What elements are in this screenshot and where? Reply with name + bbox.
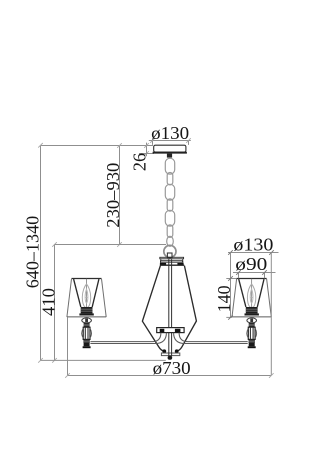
glass clamp dot right (175, 349, 179, 353)
hanging ring (164, 245, 176, 257)
left socket (81, 307, 93, 313)
right shade inner cone left (239, 279, 246, 307)
left lower collar (83, 339, 89, 342)
right collar gap (249, 340, 255, 342)
svg-text:230–930: 230–930 (103, 163, 123, 228)
glass clamp dot left (162, 349, 166, 353)
body clamp block right (177, 263, 183, 265)
left candle base cap (83, 346, 91, 348)
dimension line 230-930 (vertical) (119, 146, 121, 245)
right bulb flame (250, 289, 253, 303)
bottom plate (161, 353, 179, 356)
svg-text:410: 410 (38, 288, 58, 316)
right shade flare left (232, 279, 237, 317)
svg-text:ø130: ø130 (151, 123, 189, 143)
left shade bottom edge (67, 316, 106, 318)
right bead center (250, 319, 253, 323)
extension line: bottom reference (41, 359, 166, 361)
left socket stripes (81, 309, 93, 311)
svg-text:ø130: ø130 (233, 235, 273, 255)
right candle base cap (248, 346, 256, 348)
left lamp centerline (86, 279, 88, 307)
extension d90 left (238, 273, 240, 279)
body top edge (160, 264, 184, 266)
tick 640-1340 bottom (38, 358, 43, 363)
left bead center (85, 319, 88, 323)
left bulb flame (85, 289, 88, 303)
right neck (249, 323, 255, 327)
right crystal inner facets (250, 327, 253, 339)
tick 230-930 bottom (117, 242, 122, 247)
chain end oval (167, 236, 174, 246)
svg-text:ø90: ø90 (235, 254, 267, 274)
left crystal lobe left (82, 328, 84, 338)
right candle base (249, 343, 255, 347)
body clamp block left (160, 263, 166, 265)
dimension line 140 (vertical, shared with d130 extension) (230, 253, 232, 318)
dimension line d730 (68, 375, 272, 377)
chain connector 3 (167, 225, 173, 238)
tick d130 canopy left (150, 138, 155, 143)
central rod right line (171, 259, 173, 356)
tick d130 shade right (269, 250, 274, 255)
extension d730 left (67, 317, 69, 375)
svg-text:140: 140 (214, 285, 234, 312)
right crystal lobe left (247, 328, 249, 338)
left crystal inner facets (85, 327, 88, 339)
right arm tube bottom edge (174, 333, 248, 344)
finial cap (168, 356, 173, 360)
extension 140 top (226, 278, 236, 280)
tick 26 top (144, 143, 149, 148)
left neck gap (84, 324, 90, 326)
svg-text:26: 26 (129, 153, 149, 171)
chain connector 2 (167, 199, 173, 211)
extension line: mid level (ring) to left dims (55, 244, 167, 246)
left shade inner cone right (92, 279, 99, 307)
right arm tube top edge (179, 333, 248, 342)
canopy chain stub (167, 154, 172, 158)
tick 26 bottom (144, 151, 149, 156)
tick d730 left (65, 373, 70, 378)
tick d90 left (236, 270, 241, 275)
left crystal lobe right (90, 328, 92, 338)
tick d130 canopy right (186, 138, 191, 143)
left neck (84, 323, 90, 327)
svg-text:ø730: ø730 (153, 358, 191, 378)
chain link 1 (165, 158, 174, 174)
right crystal barrel (248, 327, 255, 339)
left arm tube bottom edge (90, 333, 166, 344)
tick d90 right (262, 270, 267, 275)
extension line: canopy top to left dims (41, 145, 154, 147)
chain link 2 (165, 184, 174, 200)
dimension line 410 (vertical) (54, 245, 56, 361)
left socket flange (79, 313, 93, 315)
dimension 26 vertical line (146, 143, 148, 157)
right shade inner cone right (257, 279, 264, 307)
right shade flare right (267, 279, 272, 317)
tick d130 shade left (228, 250, 233, 255)
left bulb outline (82, 284, 90, 307)
dimension line d90 (right) (233, 272, 276, 274)
tick d730 right (269, 373, 274, 378)
glass body left edge (142, 266, 164, 352)
right shade rim (237, 278, 267, 280)
svg-text:640–1340: 640–1340 (23, 216, 43, 289)
left shade flare right (102, 279, 107, 317)
dimension line d130 canopy (149, 140, 191, 142)
right bulb outline (247, 284, 255, 307)
hub nub left (160, 329, 165, 333)
right crystal lobe right (255, 328, 257, 338)
right socket flange (245, 313, 259, 315)
right lamp centerline (251, 279, 253, 307)
body cap bar (160, 257, 184, 259)
body cap side left (160, 259, 162, 263)
canopy (154, 145, 186, 152)
tick 140 top (228, 276, 233, 281)
extension line canopy bottom (26) (139, 153, 154, 155)
left crystal barrel (83, 327, 90, 339)
extension d90 right (264, 273, 266, 279)
central rod left line (168, 259, 170, 356)
tick 230-930 top (117, 143, 122, 148)
chain link 3 (165, 210, 174, 226)
right socket (246, 307, 258, 313)
left shade inner cone left (74, 279, 81, 307)
right bulb filament tick (251, 297, 253, 299)
body cap bar 2 (161, 261, 183, 263)
hub nub right (175, 329, 181, 333)
body top link (167, 253, 172, 258)
tick 410 bottom (52, 358, 57, 363)
chain connector 1 (167, 173, 173, 185)
left bulb filament tick (86, 297, 88, 299)
extension d730 right (also d130 right extension) (270, 253, 272, 376)
hub bar (157, 328, 184, 333)
canopy bottom lip (153, 152, 187, 154)
left shade flare left (67, 279, 72, 317)
left candle base (84, 343, 90, 347)
left bead (82, 318, 92, 323)
left shade rim (72, 278, 102, 280)
extension 140 bottom (226, 316, 232, 318)
dimension line d130 shade (right) (228, 252, 279, 254)
tick 410 top (52, 242, 57, 247)
tick 640-1340 top (38, 143, 43, 148)
left arm tube top edge (90, 333, 160, 342)
dimension line 640-1340 (vertical) (40, 146, 42, 361)
glass body right edge (177, 266, 197, 352)
right bead (247, 318, 257, 323)
right socket stripes (246, 309, 258, 311)
right lower collar (249, 339, 255, 342)
tick 140 bottom (228, 315, 233, 320)
right shade bottom edge (232, 316, 271, 318)
extension d130 canopy right (188, 141, 190, 145)
extension d130 canopy left (152, 141, 154, 145)
left collar gap (83, 340, 89, 342)
body cap side right (182, 259, 184, 263)
right neck gap (249, 324, 255, 326)
